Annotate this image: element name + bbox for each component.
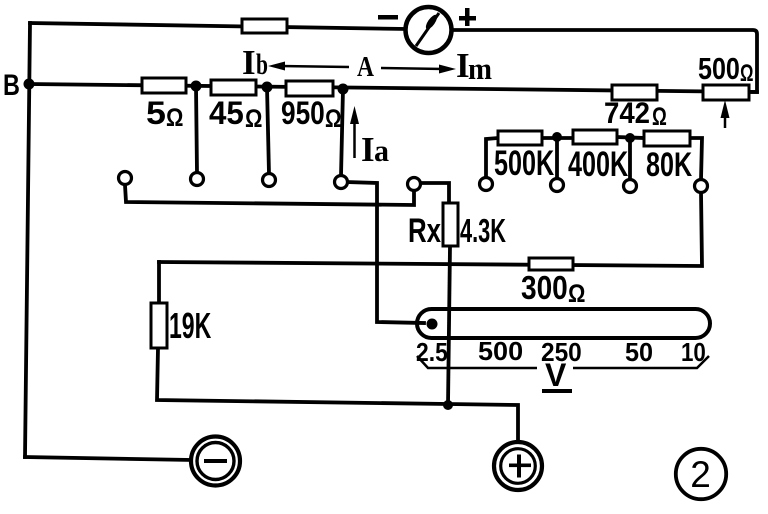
svg-text:V: V: [545, 357, 567, 393]
svg-text:a: a: [374, 134, 389, 169]
svg-text:500: 500: [478, 336, 523, 365]
svg-text:50: 50: [625, 339, 653, 367]
svg-text:500: 500: [698, 50, 740, 85]
svg-text:Ω: Ω: [652, 102, 667, 130]
svg-text:500K: 500K: [494, 144, 554, 183]
svg-text:Ω: Ω: [325, 104, 342, 132]
svg-text:950: 950: [281, 97, 325, 132]
svg-text:A: A: [357, 50, 374, 83]
svg-text:Rx: Rx: [408, 213, 441, 250]
svg-text:Ω: Ω: [245, 105, 262, 133]
svg-text:742: 742: [604, 97, 650, 130]
svg-text:Ω: Ω: [568, 280, 585, 308]
svg-text:19K: 19K: [169, 307, 211, 346]
svg-text:I: I: [242, 43, 256, 82]
svg-text:5: 5: [146, 96, 166, 132]
svg-text:10: 10: [681, 338, 706, 367]
svg-text:b: b: [256, 48, 268, 81]
svg-text:Ω: Ω: [740, 60, 753, 87]
svg-text:2: 2: [690, 454, 711, 495]
svg-text:2.5: 2.5: [416, 339, 448, 368]
svg-text:m: m: [468, 52, 492, 86]
svg-text:400K: 400K: [568, 145, 628, 184]
svg-text:4.3K: 4.3K: [460, 212, 506, 249]
svg-text:80K: 80K: [646, 146, 692, 184]
svg-text:300: 300: [521, 270, 568, 307]
svg-text:45: 45: [209, 95, 244, 131]
svg-text:I: I: [361, 130, 375, 169]
svg-text:Ω: Ω: [166, 104, 183, 132]
svg-text:B: B: [3, 68, 20, 101]
